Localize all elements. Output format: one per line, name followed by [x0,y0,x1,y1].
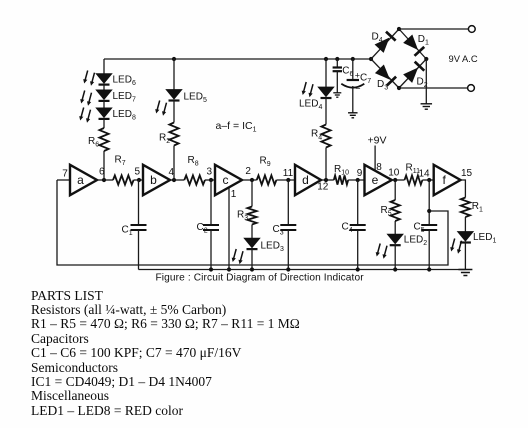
wire LED1 to ground [464,242,466,269]
LED8 [96,108,112,118]
junction dot C6 column [335,57,339,61]
wire R1 to LED1 [464,217,466,232]
resistor R9 [257,175,277,184]
LED7 [96,90,112,100]
LED3 [244,238,260,248]
svg-text:9: 9 [357,168,363,179]
svg-text:10: 10 [388,168,400,179]
wire node to C4 [357,180,359,225]
wire top rail to LED5 [173,59,175,90]
wire a input (pin 7) [57,179,70,181]
wire c output to R9 [242,179,257,181]
resistor R8 [184,175,205,184]
svg-text:7: 7 [62,169,68,180]
junction feedback tap [427,209,431,213]
node 10 junction [393,178,397,182]
light arrows LED5 [155,101,166,116]
wire node 2 to R3 [251,180,253,207]
diode D1 [403,34,424,56]
svg-text:C6: C6 [342,66,353,79]
svg-text:−: − [355,84,360,94]
svg-text:R1: R1 [472,201,483,214]
svg-text:1: 1 [231,189,237,200]
wire bridge right node to ground [425,59,427,104]
svg-text:Figure : Circuit Diagram of Di: Figure : Circuit Diagram of Direction In… [156,273,365,284]
wire LED2 to ground rail [394,245,396,270]
light arrows LED4 [302,82,313,97]
svg-text:LED7: LED7 [113,91,136,104]
resistor R10 [334,175,348,184]
junction C3-ground [286,267,290,271]
svg-text:R11: R11 [406,163,421,176]
junction LED2-ground [393,267,397,271]
svg-text:R10: R10 [334,164,349,177]
wire C1 to ground rail [138,230,140,270]
junction C4-ground [356,267,360,271]
svg-text:R4: R4 [311,129,322,142]
resistor R2 [169,123,178,146]
svg-text:15: 15 [461,168,473,179]
resistor R1 [461,198,470,218]
wire f output (pin 15) [461,180,466,198]
wire LED7 to LED8 [103,101,105,108]
junction dot LED5 column [172,57,176,61]
inverter U1d [295,165,321,195]
capacitor C1 [131,224,147,226]
wire R3 to LED3 [251,225,253,239]
wire rail to C7 [352,59,354,80]
svg-text:3: 3 [207,167,213,178]
junction dot bridge left node [369,57,373,61]
LED2 [387,234,403,244]
wire R7 to b input [134,179,143,181]
svg-text:LED2: LED2 [404,234,427,247]
wire LED4 to R4 [325,98,327,125]
capacitor C5 [421,224,437,226]
wire pin 1 stub to ground rail [228,188,230,270]
wire C5 to ground rail [428,230,430,270]
inverter U1b [143,165,170,195]
wire b output to R8 [170,179,184,181]
junction dot C7 column [351,57,355,61]
node bridge top [397,27,401,31]
wire C2 to ground rail [210,230,212,270]
ground bridge [421,103,433,105]
diode D3 [375,64,396,86]
svg-text:14: 14 [418,169,430,180]
wire node 10 to R5 [394,180,396,200]
svg-text:LED6: LED6 [113,75,136,88]
svg-text:2: 2 [245,166,251,177]
svg-text:LED1: LED1 [473,232,496,245]
svg-text:D3: D3 [377,79,388,92]
wire C7 to ground [352,86,354,113]
light arrows LED3 [232,249,243,264]
svg-text:C1: C1 [122,225,133,238]
node 5 junction [137,178,141,182]
resistor R5 [391,200,400,221]
light arrows LED6 [83,71,94,86]
wire node to C2 [210,180,212,225]
wire feedback C5 tap to a input [57,180,448,265]
parts list text block [31,289,300,418]
wire R6 to node 6 [103,151,105,180]
wire rail to C6 [336,59,338,67]
wire R11 to f input [422,179,433,181]
svg-text:f: f [443,173,447,187]
wire node to C3 [287,180,289,225]
wire bridge edge left-top [371,29,399,59]
svg-text:R5: R5 [381,205,392,218]
svg-text:e: e [372,173,379,187]
wire R2 to node 4 [173,146,175,181]
wire R4 to node 12 [325,148,327,181]
node 2 junction [250,178,254,182]
ground C7 [348,112,358,114]
wire a output to R7 [97,179,113,181]
wire bridge edge top-right [399,29,426,59]
svg-text:11: 11 [283,168,294,179]
LED6 [96,74,112,84]
junction dot LED4 column [324,57,328,61]
node 4 junction [172,178,176,182]
node 12 junction [324,178,328,182]
capacitor C4 [350,224,366,226]
ground main [458,269,472,271]
svg-text:12: 12 [317,182,329,193]
node 11 junction [286,178,290,182]
light arrows LED8 [79,108,90,123]
light arrows LED1 [450,239,461,254]
wire node to C1 [138,180,140,225]
LED1 [458,232,474,242]
capacitor C7 curved plate [341,84,364,88]
wire LED8 to R6 [103,119,105,128]
wire R10 to e input [348,179,364,181]
svg-text:LED8: LED8 [113,109,136,122]
svg-text:R9: R9 [260,156,271,169]
AC terminal top [468,26,475,33]
svg-text:R6: R6 [88,136,99,149]
svg-text:b: b [150,173,157,187]
junction C5-ground [427,267,431,271]
svg-text:C7: C7 [360,73,371,86]
wire d output to R10 [321,179,334,181]
node 3 junction [209,178,213,182]
wire node to C5 [428,180,430,225]
svg-text:LED4: LED4 [299,99,322,112]
wire R5 to LED2 [394,221,396,234]
AC terminal bottom [468,85,475,92]
wire LED3 to ground rail [251,249,253,270]
light arrows LED7 [80,91,91,106]
wire e output to R11 [392,179,405,181]
wire AC bottom terminal [399,87,468,89]
svg-text:LED3: LED3 [261,241,284,254]
wire C3 to ground rail [287,230,289,270]
node 9 junction [356,178,360,182]
inverter U1e [365,165,392,195]
resistor R4 [321,125,330,148]
svg-text:R7: R7 [115,155,126,168]
svg-text:C5: C5 [414,222,425,235]
svg-text:+9V: +9V [368,135,387,147]
svg-text:8: 8 [376,162,382,173]
svg-text:9V A.C: 9V A.C [449,53,478,64]
junction LED3-ground [250,267,254,271]
wire C4 to ground rail [357,230,359,270]
node 14 junction [427,178,431,182]
diode D2 [403,62,424,84]
wire bridge edge bottom-right [399,59,426,88]
junction pin1-ground [227,267,231,271]
wire +9V to inverter e pin 8 [374,146,376,171]
capacitor C6 [333,66,342,68]
wire ground rail [139,269,466,271]
wire C6 to ground [336,71,338,92]
svg-text:LED5: LED5 [184,91,207,104]
node 6 junction [102,178,106,182]
light arrows LED2 [376,244,387,259]
wire +9V top rail [104,58,371,60]
wire bridge edge left-bottom [371,59,399,88]
wire R9 to d input [276,179,295,181]
resistor R6 [99,128,108,151]
resistor R3 [247,207,256,225]
inverter U1f [434,165,461,195]
resistor R11 [405,175,423,184]
svg-text:C4: C4 [342,222,353,235]
svg-text:a–f = IC1: a–f = IC1 [216,120,257,134]
capacitor C7 plus plate [347,79,359,81]
wire R8 to c input [205,179,215,181]
wire top rail to LED6 [103,59,105,74]
wire LED6 to LED7 [103,84,105,90]
svg-text:R8: R8 [188,155,199,168]
inverter U1a [70,165,97,195]
resistor R7 [113,175,134,184]
svg-text:R3: R3 [237,210,248,223]
svg-text:5: 5 [135,167,141,178]
svg-text:D4: D4 [372,32,383,45]
ground C6 [333,92,341,94]
capacitor C3 [280,224,296,226]
svg-text:a: a [77,173,84,187]
svg-text:d: d [302,173,309,187]
inverter U1c [215,165,242,195]
node bridge right [424,57,428,61]
node bridge bottom [397,86,401,90]
svg-text:R2: R2 [159,133,170,146]
diode D4 [374,32,395,54]
LED5 [166,90,182,100]
capacitor C2 [203,224,219,226]
junction C2-ground [209,267,213,271]
svg-text:C2: C2 [197,222,208,235]
svg-text:c: c [223,173,229,187]
wire top rail to LED4 [325,59,327,87]
wire AC top terminal [399,28,469,30]
svg-text:D1: D1 [418,34,429,47]
wire LED5 to R2 [173,100,175,122]
LED4 [318,87,334,97]
